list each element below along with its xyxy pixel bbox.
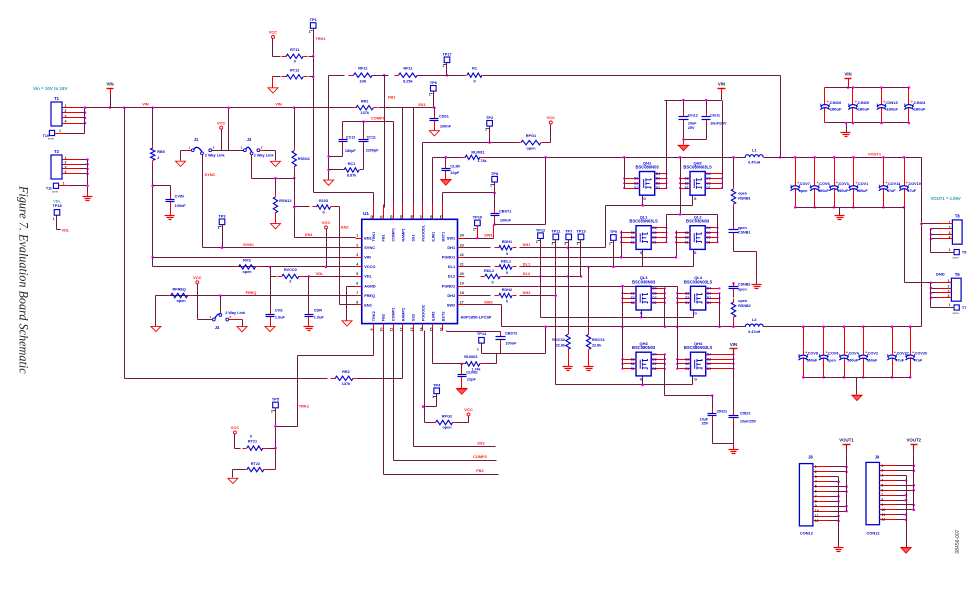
wire QL3 drain rail xyxy=(664,289,666,327)
ground (J9) xyxy=(901,548,911,553)
svg-text:VIN: VIN xyxy=(275,102,282,107)
svg-text:12: 12 xyxy=(815,519,819,523)
svg-text:7: 7 xyxy=(881,493,883,497)
svg-text:22pF: 22pF xyxy=(450,171,460,175)
svg-text:RDH1: RDH1 xyxy=(502,240,513,244)
svg-text:VDL: VDL xyxy=(62,228,70,233)
wire RB0 to VIN pin net xyxy=(152,165,154,266)
svg-text:RLIM21: RLIM21 xyxy=(464,355,478,359)
svg-text:2: 2 xyxy=(815,470,817,474)
svg-text:7: 7 xyxy=(356,291,358,295)
wire QL1 drain rail xyxy=(666,215,668,243)
svg-text:1: 1 xyxy=(432,395,434,399)
svg-text:3: 3 xyxy=(815,475,817,479)
svg-text:TRK2: TRK2 xyxy=(299,403,310,408)
svg-text:TP6: TP6 xyxy=(430,80,438,85)
svg-text:28: 28 xyxy=(410,215,414,219)
svg-text:S2: S2 xyxy=(685,362,689,366)
wire QL4 drain rail xyxy=(719,294,721,327)
svg-text:1: 1 xyxy=(356,234,358,238)
ground (CVIN) xyxy=(170,207,172,216)
svg-text:S2: S2 xyxy=(634,181,638,185)
svg-text:COV7: COV7 xyxy=(800,182,810,186)
svg-text:CBST1: CBST1 xyxy=(499,209,512,213)
resistor RPG1 (open) xyxy=(517,142,521,144)
svg-text:VIN: VIN xyxy=(364,255,371,260)
svg-text:COV20: COV20 xyxy=(915,352,927,356)
svg-text:RSNB1: RSNB1 xyxy=(738,196,751,200)
svg-text:CIN23: CIN23 xyxy=(914,100,926,105)
svg-text:25V: 25V xyxy=(688,126,695,130)
svg-text:COMP1: COMP1 xyxy=(371,116,386,121)
svg-text:D1: D1 xyxy=(706,240,710,244)
svg-text:RFREQ: RFREQ xyxy=(173,287,186,291)
wire FREQ left to ground xyxy=(155,296,157,327)
capacitor COV7 xyxy=(794,156,797,159)
wire TRK2 net xyxy=(373,331,375,356)
svg-text:CON12: CON12 xyxy=(866,531,880,536)
resistor RPG2 (open) xyxy=(432,422,436,424)
svg-text:27: 27 xyxy=(420,215,424,219)
svg-text:D1: D1 xyxy=(706,186,710,190)
U1 bottom pins 9-16 xyxy=(373,324,375,331)
capacitor CIN13 xyxy=(880,86,883,89)
svg-text:SYNC: SYNC xyxy=(205,172,216,177)
svg-text:3: 3 xyxy=(881,474,883,478)
svg-text:1: 1 xyxy=(477,347,479,351)
wire VDL net to pin 5 xyxy=(304,276,356,278)
svg-text:S3: S3 xyxy=(634,177,638,181)
wire VOUT2 rail xyxy=(764,326,922,328)
svg-text:23: 23 xyxy=(460,243,464,247)
svg-text:180uF: 180uF xyxy=(830,106,842,111)
wire T10 to VIN column xyxy=(55,133,65,135)
wire VIN to QH4 drain rail xyxy=(733,349,735,413)
svg-text:560uF: 560uF xyxy=(807,359,818,363)
svg-text:SS1: SS1 xyxy=(418,102,426,107)
wire SYNC from J1 center xyxy=(202,155,204,248)
svg-text:SS2: SS2 xyxy=(477,441,485,446)
svg-text:D1: D1 xyxy=(652,240,656,244)
resistor RVS (open) xyxy=(235,266,239,268)
svg-text:PGND1: PGND1 xyxy=(442,255,456,260)
wire EN1 to pin 1 xyxy=(295,237,356,239)
svg-text:CIN13: CIN13 xyxy=(886,100,898,105)
svg-text:D2: D2 xyxy=(707,296,711,300)
svg-text:D4: D4 xyxy=(652,353,656,357)
wire J9 pins xyxy=(880,465,897,467)
svg-text:2 Way Link: 2 Way Link xyxy=(205,153,226,157)
svg-text:0: 0 xyxy=(506,252,508,256)
resistor RGCS1 xyxy=(588,267,590,333)
svg-text:8.25k: 8.25k xyxy=(403,79,413,83)
svg-text:CSNB1: CSNB1 xyxy=(738,231,751,235)
svg-text:S3: S3 xyxy=(685,291,689,295)
svg-text:S2: S2 xyxy=(631,362,635,366)
resistor RFREQ (open) xyxy=(167,295,171,297)
svg-text:6: 6 xyxy=(356,282,358,286)
ground (FREQ) xyxy=(151,326,161,331)
ground (input caps) xyxy=(683,140,685,145)
svg-text:RSN12: RSN12 xyxy=(279,199,291,203)
svg-text:TRK1: TRK1 xyxy=(315,36,326,41)
svg-text:R103: R103 xyxy=(319,199,328,203)
resistor RDH2 xyxy=(465,295,491,297)
svg-text:open: open xyxy=(827,359,837,363)
svg-text:L1: L1 xyxy=(752,148,757,153)
wire ILIM2 net xyxy=(432,331,434,364)
svg-text:COMP2: COMP2 xyxy=(392,308,396,322)
svg-text:J4: J4 xyxy=(215,325,220,330)
wire RSN11 bottom to EN1 node xyxy=(294,171,296,238)
capacitor CVS xyxy=(270,277,272,311)
wire QL3 gate xyxy=(641,311,643,318)
svg-text:1: 1 xyxy=(815,465,817,469)
svg-text:PGOOD2: PGOOD2 xyxy=(421,305,425,321)
resistor R1 xyxy=(418,75,463,77)
svg-text:SS1: SS1 xyxy=(412,234,416,241)
resistor RB0 xyxy=(152,108,154,145)
resistor RSNB1 (open) xyxy=(733,158,735,185)
wire COMP2 net xyxy=(393,331,395,461)
svg-text:D4: D4 xyxy=(706,172,710,176)
svg-text:2: 2 xyxy=(289,279,291,283)
wire TP3 to SYNC xyxy=(222,225,224,248)
wire BST1 net xyxy=(442,193,444,208)
wire J8 pins xyxy=(813,466,830,468)
svg-text:T6: T6 xyxy=(955,272,961,277)
svg-text:G: G xyxy=(694,378,697,382)
wire RPG1 to VCC xyxy=(546,142,551,144)
capacitor CSS1 xyxy=(434,108,436,115)
svg-text:T11: T11 xyxy=(46,187,52,191)
ground (CLIM2) xyxy=(461,382,463,389)
svg-text:10uF: 10uF xyxy=(700,417,709,421)
svg-text:VIN: VIN xyxy=(106,81,113,86)
svg-text:T10: T10 xyxy=(43,134,49,138)
capacitor CIN21 xyxy=(712,396,714,409)
svg-text:COV4: COV4 xyxy=(849,352,860,356)
svg-text:5: 5 xyxy=(881,483,883,487)
wire VCCO net xyxy=(152,258,154,267)
svg-text:5: 5 xyxy=(356,272,358,276)
svg-text:TP2: TP2 xyxy=(486,115,494,120)
svg-text:VDL: VDL xyxy=(364,274,372,279)
svg-text:VOUT1 = 1.09V: VOUT1 = 1.09V xyxy=(931,196,961,201)
svg-text:2: 2 xyxy=(157,156,159,160)
svg-text:0: 0 xyxy=(473,79,475,83)
svg-text:ILIM1: ILIM1 xyxy=(431,232,435,242)
capacitor COV2 xyxy=(862,325,865,328)
resistor RLIM11 xyxy=(461,157,466,159)
ground (RGCS2) xyxy=(568,354,570,367)
svg-text:BSC030N03: BSC030N03 xyxy=(632,279,656,284)
resistor RDL2 xyxy=(481,276,485,278)
svg-text:1.74k: 1.74k xyxy=(472,367,481,371)
wire T6 pins xyxy=(937,282,952,284)
svg-text:TP9: TP9 xyxy=(610,229,618,234)
wire CC11 bottom xyxy=(363,146,365,170)
resistor RSNB2 (open) xyxy=(733,294,735,298)
svg-text:DL2: DL2 xyxy=(448,274,456,279)
svg-text:TP4: TP4 xyxy=(433,383,441,388)
ground (bank2) xyxy=(856,378,858,395)
wire RAMP1 to pin 29 xyxy=(402,108,404,208)
svg-text:COV1: COV1 xyxy=(858,182,868,186)
wire DL2 net to QL3/QL4 gates xyxy=(505,276,581,278)
wire VIN to RR2 xyxy=(124,108,126,379)
wire T2 pins to ground column xyxy=(63,159,81,161)
ground (RT12) xyxy=(268,88,278,93)
wire VIN to pin 3 xyxy=(153,257,356,259)
svg-text:16: 16 xyxy=(439,328,443,332)
ground (CIN21/CIN22) xyxy=(729,449,739,451)
svg-text:RAMP2: RAMP2 xyxy=(401,308,405,321)
svg-text:5: 5 xyxy=(815,485,817,489)
svg-text:100nF: 100nF xyxy=(175,204,187,208)
svg-text:PGND2: PGND2 xyxy=(442,283,456,288)
svg-text:2: 2 xyxy=(213,146,215,150)
svg-text:VCCO: VCCO xyxy=(364,264,375,269)
wire ILIM1 net xyxy=(432,158,434,208)
svg-text:TP5: TP5 xyxy=(272,397,280,402)
svg-text:10uF/25V: 10uF/25V xyxy=(740,419,757,423)
turret T11 xyxy=(53,183,58,188)
svg-text:D4: D4 xyxy=(656,172,660,176)
capacitor CIN23 xyxy=(908,86,911,89)
wire CIN21/CIN22 to ground xyxy=(712,420,714,444)
wire TRK1 vertical xyxy=(313,29,315,193)
svg-text:14: 14 xyxy=(420,328,424,332)
svg-text:47uF: 47uF xyxy=(914,359,923,363)
svg-text:180uF: 180uF xyxy=(858,106,870,111)
wire PGOOD2 net xyxy=(424,331,426,423)
svg-text:560uF: 560uF xyxy=(847,359,858,363)
ground (J3) xyxy=(271,161,281,166)
wire input bank top rail xyxy=(825,87,909,89)
svg-text:11: 11 xyxy=(815,514,819,518)
svg-text:COV19: COV19 xyxy=(909,182,921,186)
svg-text:30: 30 xyxy=(390,215,394,219)
wire QH1 gate xyxy=(642,196,644,206)
svg-text:1: 1 xyxy=(309,30,311,34)
node FB1 xyxy=(383,74,386,77)
svg-text:9: 9 xyxy=(881,503,883,507)
svg-text:J1: J1 xyxy=(194,137,199,142)
resistor RF11 xyxy=(373,75,389,77)
svg-text:22pF: 22pF xyxy=(467,377,477,381)
svg-text:17: 17 xyxy=(460,301,464,305)
wire QH3 drain rail to CIN21 xyxy=(664,355,666,396)
svg-text:TP13: TP13 xyxy=(576,229,586,234)
resistor RDL1 xyxy=(465,266,491,268)
svg-text:180pF: 180pF xyxy=(345,149,356,153)
ground (J4) xyxy=(237,327,247,332)
svg-text:RSN11: RSN11 xyxy=(298,157,311,161)
jumper J1 2 Way Link xyxy=(191,149,194,152)
wire EN2 to pin 8 xyxy=(340,304,356,306)
resistor RT11 xyxy=(272,39,274,57)
svg-text:SW2: SW2 xyxy=(484,299,493,304)
svg-text:FB1: FB1 xyxy=(382,234,386,241)
svg-text:1: 1 xyxy=(210,315,212,319)
capacitor CIN22 xyxy=(733,411,735,416)
wire QH2 source rail / SW link xyxy=(680,158,682,215)
svg-text:S3: S3 xyxy=(685,177,689,181)
svg-text:25V: 25V xyxy=(702,422,709,426)
svg-text:RT12: RT12 xyxy=(290,69,299,73)
wire T8 pins xyxy=(939,223,953,225)
svg-text:CIN21: CIN21 xyxy=(717,409,728,413)
svg-text:1: 1 xyxy=(551,241,553,245)
svg-text:0: 0 xyxy=(506,271,508,275)
wire QH3 source rail xyxy=(622,327,624,369)
svg-text:DH1: DH1 xyxy=(523,242,532,247)
resistor RT12 xyxy=(273,76,281,78)
svg-text:RT22: RT22 xyxy=(251,462,260,466)
svg-text:7: 7 xyxy=(815,494,817,498)
svg-text:BSC030N03: BSC030N03 xyxy=(686,219,710,224)
wire RLIM21 to CBST2 node xyxy=(485,363,497,365)
svg-text:FB2: FB2 xyxy=(476,468,484,473)
wire TRK1 to pin 32 xyxy=(314,192,374,194)
svg-text:1.0uF: 1.0uF xyxy=(275,315,286,319)
wire FB1 to pin 31 xyxy=(384,76,386,208)
capacitor CC12 xyxy=(342,122,344,135)
svg-text:0: 0 xyxy=(294,59,296,63)
svg-text:BST1: BST1 xyxy=(441,232,445,242)
svg-text:DH2: DH2 xyxy=(447,293,456,298)
svg-text:AGND: AGND xyxy=(364,283,376,288)
svg-text:VCC: VCC xyxy=(547,115,556,120)
svg-text:137k: 137k xyxy=(360,111,369,115)
svg-text:BSC080N03LS: BSC080N03LS xyxy=(683,165,712,170)
wire VOUT2 column xyxy=(913,445,915,510)
svg-text:2: 2 xyxy=(261,146,263,150)
svg-text:560uF: 560uF xyxy=(857,189,868,193)
svg-text:D4: D4 xyxy=(707,287,711,291)
svg-text:1: 1 xyxy=(881,464,883,468)
svg-text:FREQ: FREQ xyxy=(246,290,257,295)
svg-text:RSNB2: RSNB2 xyxy=(738,304,751,308)
wire SW link to QL drains xyxy=(667,214,718,216)
wire J1 pin1 to ground xyxy=(187,150,192,152)
svg-text:1: 1 xyxy=(473,227,475,231)
svg-text:VIN: VIN xyxy=(142,102,149,107)
svg-text:RR1: RR1 xyxy=(361,99,370,103)
wire output bank1 bottom rail xyxy=(796,207,905,209)
wire DL1 net to QL gates xyxy=(520,266,694,268)
wire VOUT1 column xyxy=(846,445,848,512)
svg-text:COMP1: COMP1 xyxy=(392,228,396,242)
svg-text:Figure 7. Evaluation Board Sch: Figure 7. Evaluation Board Schematic xyxy=(17,185,31,374)
svg-text:RPG2: RPG2 xyxy=(442,414,452,418)
svg-text:COV8: COV8 xyxy=(808,352,818,356)
svg-text:EN2: EN2 xyxy=(341,224,349,229)
ground (snubber 1) xyxy=(752,284,762,286)
svg-text:8: 8 xyxy=(815,499,817,503)
wire VCC to J4 pin1 xyxy=(197,284,199,320)
svg-text:open: open xyxy=(176,299,186,303)
svg-text:BST2: BST2 xyxy=(441,311,445,321)
svg-text:RT11: RT11 xyxy=(290,48,300,52)
svg-text:COV13: COV13 xyxy=(888,182,900,186)
svg-text:D4: D4 xyxy=(652,226,656,230)
wire SW1 rail xyxy=(485,157,746,159)
wire VIN distribution phase1 xyxy=(665,100,722,102)
ground (AGND) xyxy=(342,321,352,326)
svg-text:TP10: TP10 xyxy=(473,215,483,220)
svg-text:1: 1 xyxy=(241,146,243,150)
wire SS2 net xyxy=(413,331,415,447)
U1 top pins 32-25 xyxy=(373,205,375,220)
ground (CSS1) xyxy=(434,126,436,131)
svg-text:180uF: 180uF xyxy=(886,106,898,111)
svg-text:T2: T2 xyxy=(54,149,60,154)
svg-text:D3: D3 xyxy=(707,291,711,295)
svg-text:DH2: DH2 xyxy=(523,290,532,295)
svg-text:25: 25 xyxy=(439,215,443,219)
svg-text:RLIM11: RLIM11 xyxy=(471,151,485,155)
svg-text:0: 0 xyxy=(491,281,493,285)
wire J3 center to RSN11 node xyxy=(251,155,253,179)
wire SW2 rail xyxy=(502,326,746,328)
svg-text:CIn12: CIn12 xyxy=(688,114,698,118)
capacitor CBST1 xyxy=(494,193,496,209)
wire QH2 gate xyxy=(692,196,694,206)
svg-text:BSC030N03LS: BSC030N03LS xyxy=(629,219,658,224)
svg-text:8.87k: 8.87k xyxy=(347,173,357,177)
capacitor CIN20 xyxy=(852,86,855,89)
capacitor COV13 xyxy=(882,156,885,159)
svg-text:0: 0 xyxy=(250,434,252,438)
svg-text:1: 1 xyxy=(949,303,951,307)
wire RR2 to RAMP2 pin xyxy=(358,378,403,380)
svg-text:PGOOD1: PGOOD1 xyxy=(421,225,425,241)
capacitor CLIM xyxy=(445,158,447,165)
svg-text:26: 26 xyxy=(429,215,433,219)
svg-text:T7: T7 xyxy=(962,305,967,310)
svg-text:J9: J9 xyxy=(875,454,880,459)
svg-text:D1: D1 xyxy=(707,301,711,305)
svg-text:open: open xyxy=(738,191,748,195)
svg-text:TP18: TP18 xyxy=(52,203,62,208)
svg-text:BSC080N03LS: BSC080N03LS xyxy=(684,345,713,350)
svg-text:100nF: 100nF xyxy=(505,342,517,346)
wire VIN to link J3 xyxy=(228,108,230,151)
wire RF12 left leg down xyxy=(328,76,330,180)
wire RAMP1/SS1 line xyxy=(379,107,435,109)
svg-text:COV6: COV6 xyxy=(828,352,838,356)
wire TP18 to VDL xyxy=(56,216,58,230)
svg-text:RR2: RR2 xyxy=(342,370,350,374)
svg-text:D1: D1 xyxy=(652,301,656,305)
svg-text:VCC: VCC xyxy=(217,120,226,125)
svg-text:10: 10 xyxy=(881,508,885,512)
wire QH1 source rail to SW1 xyxy=(624,158,626,189)
svg-text:RT21: RT21 xyxy=(248,440,258,444)
wire PGND1 net xyxy=(465,257,677,259)
wire VCC to J1/J3 xyxy=(221,130,223,151)
wire SS1 to pin 28 xyxy=(413,108,415,208)
svg-text:FB2: FB2 xyxy=(382,314,386,321)
ground (CDR) xyxy=(308,321,310,327)
turret T9 xyxy=(954,250,959,255)
capacitor COV8 xyxy=(802,325,805,328)
ground (CLIM) xyxy=(445,176,447,180)
svg-text:S1: S1 xyxy=(685,186,689,190)
svg-text:G: G xyxy=(643,197,646,201)
